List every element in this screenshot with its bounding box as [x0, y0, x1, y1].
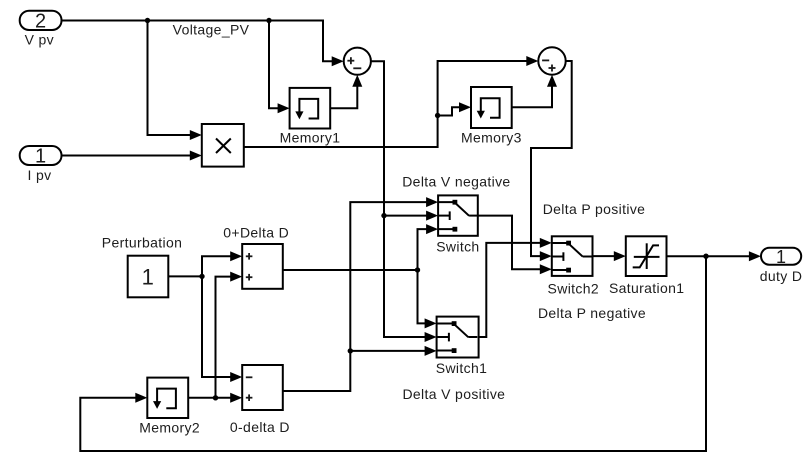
- node junction 0+DeltaD: [415, 267, 420, 272]
- node junction memory2/0+DeltaD: [213, 395, 218, 400]
- inport 1 I pv: [20, 146, 62, 184]
- wire Memory1 output to sum1 bottom: [330, 80, 357, 108]
- wire junction to Switch1 in3: [350, 350, 430, 352]
- arrowhead into Memory2: [135, 393, 147, 403]
- wire 0+DeltaD output to splitter: [283, 269, 418, 271]
- arrowhead into duty D port: [749, 251, 761, 261]
- wire junction up to Switch in3: [418, 229, 432, 270]
- sum block circle sum2: [538, 47, 565, 74]
- svg-text:0+Delta D: 0+Delta D: [223, 225, 289, 241]
- wire junction up to sum 0+DeltaD in1: [202, 256, 235, 276]
- svg-text:1: 1: [776, 247, 786, 267]
- arrowhead into sum1: [332, 56, 344, 66]
- wire junction down to Switch1 in1: [418, 270, 431, 323]
- node junction feedback: [703, 254, 708, 259]
- arrowhead into sum1 bottom: [352, 75, 362, 87]
- svg-text:1: 1: [35, 146, 46, 168]
- arrowhead into Switch in1: [426, 197, 438, 207]
- memory block Memory2: [139, 378, 200, 436]
- wire product output to sum2 left input: [244, 61, 532, 147]
- switch block Switch1: [402, 317, 505, 402]
- arrowhead into 0-deltaD in2: [230, 393, 242, 403]
- arrowhead into Switch1 in2: [425, 332, 437, 342]
- wire junction up to sum 0+DeltaD in2: [216, 277, 236, 398]
- svg-text:duty D: duty D: [760, 268, 803, 284]
- svg-text:Perturbation: Perturbation: [102, 234, 182, 250]
- constant block Perturbation value 1: [102, 234, 182, 297]
- wire feedback loop to Memory2 input: [80, 256, 706, 451]
- wire Vpv bus: port to sum1 left input: [62, 21, 337, 62]
- arrowhead into Switch2 in1: [540, 238, 552, 248]
- svg-text:Voltage_PV: Voltage_PV: [173, 22, 250, 38]
- arrowhead into 0+DeltaD in2: [230, 272, 242, 282]
- wire Memory2 output to sum 0-deltaD in2: [188, 397, 235, 399]
- svg-text:Saturation1: Saturation1: [609, 280, 684, 296]
- wire Ipv port to product in2: [62, 155, 196, 157]
- node junction perturbation: [199, 274, 204, 279]
- svg-text:V pv: V pv: [25, 31, 54, 47]
- inport 2 V pv: [20, 11, 62, 48]
- node junction deltaV/Switch: [381, 213, 386, 218]
- arrowhead into 0-deltaD in1: [230, 372, 242, 382]
- wire Switch1 output to Switch2 in1: [479, 243, 545, 337]
- outport 1 duty D: [760, 247, 803, 284]
- arrowhead into product in1: [190, 130, 202, 140]
- wire Saturation1 output to duty D port: [667, 255, 755, 257]
- wire Perturbation output to junction: [168, 275, 202, 277]
- wire junction to Memory3 input: [438, 107, 465, 115]
- arrowhead into Switch2 in3: [540, 264, 552, 274]
- wire junction down to product in1: [148, 21, 196, 136]
- svg-text:I pv: I pv: [28, 167, 52, 183]
- wire 0-deltaD output up to Switch in1: [283, 202, 431, 391]
- arrowhead into 0+DeltaD in1: [230, 251, 242, 261]
- sum block 0+Delta D: [223, 225, 289, 289]
- arrowhead into Saturation1: [614, 251, 626, 261]
- svg-text:Switch2: Switch2: [548, 280, 599, 296]
- wire Switch2 output to Saturation1: [593, 255, 620, 257]
- svg-text:Memory3: Memory3: [461, 130, 522, 146]
- svg-text:Delta P negative: Delta P negative: [538, 305, 646, 321]
- node junction 0-deltaD/Switch1: [348, 348, 353, 353]
- arrowhead into Memory1: [278, 103, 290, 113]
- wire sum1 output down to Switch1 criteria: [371, 61, 430, 337]
- svg-text:Memory1: Memory1: [280, 130, 341, 146]
- switch block Switch: [402, 173, 510, 254]
- arrowhead into Switch in2: [426, 211, 438, 221]
- sum block circle sum1: [344, 48, 371, 75]
- arrowhead into Memory3: [459, 102, 471, 112]
- svg-text:Memory2: Memory2: [139, 419, 200, 435]
- arrowhead into Switch1 in3: [425, 346, 437, 356]
- memory block Memory3: [461, 87, 522, 146]
- switch block Switch2: [538, 201, 646, 321]
- svg-text:2: 2: [35, 11, 46, 33]
- wire junction down to Memory1 input: [269, 21, 283, 109]
- node junction power/Memory3: [435, 113, 440, 118]
- node junction Vpv/product: [145, 18, 150, 23]
- svg-text:Switch: Switch: [436, 238, 479, 254]
- arrowhead into sum2 left: [526, 56, 538, 66]
- wire junction to Switch criteria input: [384, 215, 431, 217]
- arrowhead into Switch2 in2: [540, 251, 552, 261]
- arrowhead into sum2 bottom: [547, 75, 557, 87]
- product block: [202, 124, 244, 167]
- svg-text:Delta V positive: Delta V positive: [402, 386, 505, 402]
- wire Memory3 output to sum2 bottom: [512, 80, 552, 107]
- arrowhead into Switch in3: [426, 224, 438, 234]
- arrowhead into product in2: [190, 151, 202, 161]
- wire Switch output to Switch2 in3: [478, 216, 545, 270]
- memory block Memory1: [280, 88, 341, 146]
- svg-text:Switch1: Switch1: [436, 360, 487, 376]
- saturation block Saturation1: [609, 236, 684, 296]
- node junction Vpv/Memory1: [266, 18, 271, 23]
- svg-text:Delta P positive: Delta P positive: [543, 201, 646, 217]
- svg-text:0-delta D: 0-delta D: [230, 419, 290, 435]
- sum block 0-delta D: [230, 365, 290, 435]
- svg-text:1: 1: [142, 264, 154, 289]
- wire sum2 output to Switch2 criteria: [531, 61, 572, 256]
- wire junction down to sum 0-deltaD in1: [202, 276, 235, 377]
- arrowhead into Switch1 in1: [425, 318, 437, 328]
- svg-text:Delta V negative: Delta V negative: [402, 173, 510, 189]
